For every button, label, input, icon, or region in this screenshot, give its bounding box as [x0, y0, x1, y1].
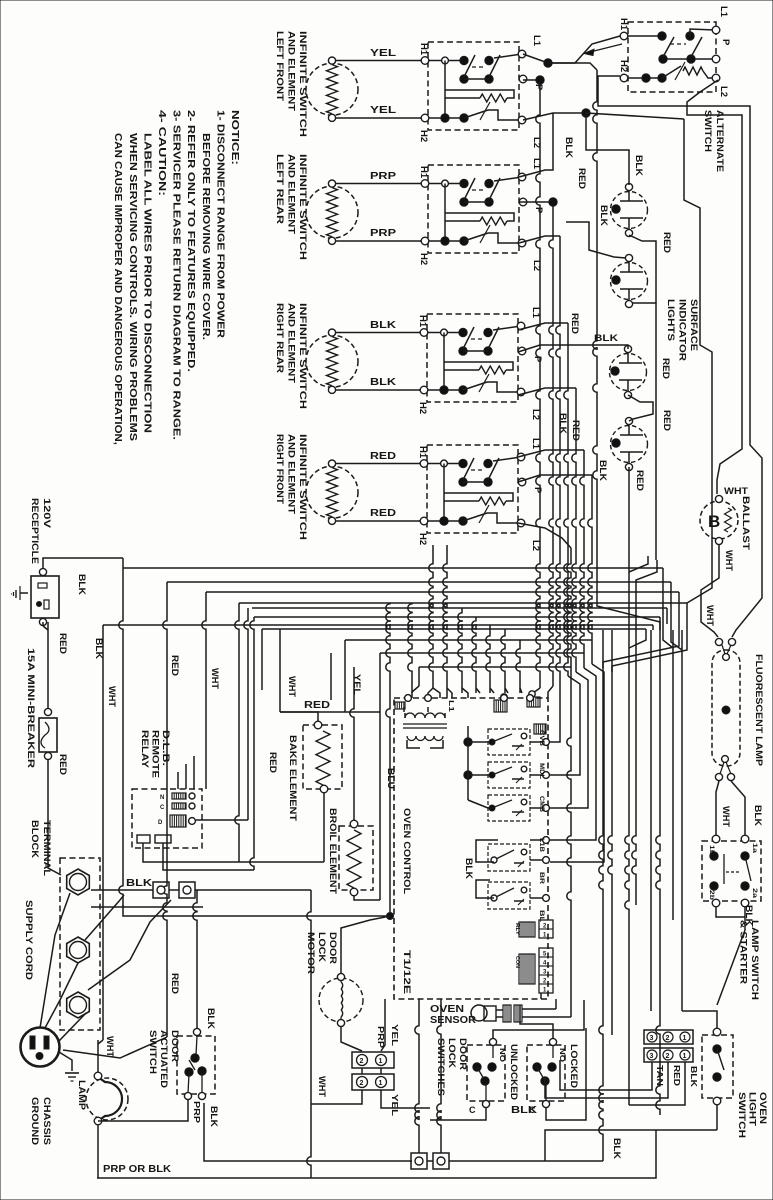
- svg-text:RELAY: RELAY: [139, 730, 150, 769]
- label: SURFACE INDICATOR LIGHTS: [665, 299, 699, 361]
- wire drop x280 WHT: [279, 629, 281, 712]
- door lock switch (unlocked): [467, 1038, 505, 1107]
- fluorescent filament bottom: [715, 756, 734, 781]
- svg-text:RED: RED: [635, 470, 645, 492]
- svg-text:1b: 1b: [708, 845, 714, 855]
- svg-text:WHT: WHT: [107, 686, 117, 708]
- label BLU broil wire: [386, 768, 396, 789]
- label RED left mid: [170, 973, 180, 995]
- wire light2 bottom chain: [655, 303, 657, 560]
- label RED sw3: [570, 313, 580, 335]
- wire broil BLU wire: [379, 712, 381, 900]
- wire right band bends top: [597, 556, 687, 672]
- label WHT ballast bottom: [724, 550, 734, 572]
- label BLK sw4: [598, 460, 608, 482]
- label L1 oven control: [447, 700, 454, 712]
- fluorescent lamp tube: [712, 650, 740, 766]
- wire bus line 1: [123, 567, 663, 569]
- label RED below breaker: [58, 754, 68, 776]
- wire P sw4: [518, 475, 604, 862]
- relay contact CMB: [488, 795, 549, 821]
- label PRP connector: [376, 1026, 386, 1048]
- svg-text:H1: H1: [618, 18, 629, 31]
- wire vertical x352 broil: [350, 667, 354, 822]
- svg-text:OVEN: OVEN: [757, 1092, 768, 1124]
- svg-text:NO: NO: [498, 1048, 505, 1063]
- pin label MDL: [538, 763, 544, 779]
- infinite switch left front: [420, 42, 527, 130]
- label: INFINITE SWITCH AND ELEMENT RIGHT REAR: [274, 303, 308, 409]
- wires strips: [545, 1005, 685, 1105]
- svg-text:DOOR: DOOR: [327, 932, 338, 964]
- wire right vertical x603: [599, 630, 603, 1161]
- wire light4 bottom down: [628, 467, 630, 556]
- svg-text:2: 2: [360, 1058, 364, 1065]
- label BLK lamp starter: [744, 905, 754, 927]
- lamp switch & starter: [702, 835, 761, 907]
- svg-text:RED: RED: [170, 973, 180, 995]
- svg-text:CON: CON: [514, 956, 520, 968]
- receptacle 120V: [12, 568, 60, 625]
- connector strip J2 (2-1): [514, 920, 553, 939]
- wire RED element to H2 (group 4): [336, 508, 420, 521]
- svg-text:AND ELEMENT: AND ELEMENT: [286, 154, 297, 234]
- svg-text:BLK: BLK: [753, 805, 763, 827]
- svg-text:LAMP: LAMP: [76, 1080, 87, 1111]
- wire door sw bottoms: [204, 1103, 412, 1161]
- svg-text:YEL: YEL: [370, 105, 396, 116]
- label RED light2: [661, 358, 671, 380]
- relay contact BR: [488, 844, 549, 871]
- svg-text:L1: L1: [447, 700, 454, 712]
- wire breaker to terminal block: [48, 760, 61, 875]
- svg-text:2a: 2a: [751, 888, 757, 899]
- wire right vertical x660: [656, 630, 660, 1115]
- chassis ground symbol: [59, 1052, 79, 1081]
- svg-text:BLK: BLK: [564, 137, 574, 159]
- label BLK sw1: [564, 137, 574, 159]
- svg-text:LABEL ALL WIRES PRIOR TO DISC: LABEL ALL WIRES PRIOR TO DISCONNECTION: [141, 133, 152, 433]
- svg-text:INDICATOR: INDICATOR: [677, 299, 688, 361]
- label: FLUORESCENT LAMP: [753, 654, 764, 767]
- label: BALLAST: [740, 496, 751, 550]
- svg-text:P: P: [720, 39, 731, 46]
- label: SUPPLY CORD: [23, 900, 34, 980]
- svg-text:WHT: WHT: [724, 550, 734, 572]
- label: BAKE ELEMENT: [287, 735, 298, 821]
- label: 15A MINI-BREAKER: [25, 648, 36, 768]
- svg-text:RED: RED: [672, 1065, 682, 1086]
- infinite switch left rear: [420, 165, 527, 253]
- relay: D.L.B. remote relay: [132, 789, 202, 848]
- wire bus line 2: [167, 581, 671, 583]
- terminal block stud 2: [67, 937, 90, 963]
- svg-text:CMB: CMB: [538, 796, 544, 813]
- wire oven light switch bottom: [716, 1105, 718, 1130]
- svg-text:L1: L1: [531, 35, 542, 47]
- wire drop x254: [250, 617, 254, 870]
- svg-text:MOTOR: MOTOR: [305, 932, 316, 974]
- wire YEL element to H2 (group 1): [336, 105, 421, 118]
- wire L2 sw3: [518, 388, 588, 808]
- junction dots oven control: [464, 726, 488, 808]
- svg-text:LIGHT: LIGHT: [747, 1092, 758, 1126]
- svg-text:H1: H1: [417, 315, 428, 328]
- wire bake bottom: [323, 793, 325, 862]
- wire bus line 3: [206, 591, 679, 593]
- label: DOOR ACTUATED SWITCH: [147, 1030, 180, 1088]
- svg-text:SWITCH: SWITCH: [736, 1092, 747, 1138]
- svg-text:RED: RED: [577, 168, 587, 190]
- infinite switch right front: [419, 445, 526, 533]
- label: LAMP SWITCH & STARTER: [738, 920, 761, 1000]
- svg-text:1: 1: [379, 1058, 383, 1065]
- svg-text:CAN CAUSE IMPROPER AND DANGERO: CAN CAUSE IMPROPER AND DANGEROUS OPERATI…: [112, 133, 123, 445]
- label BLK receptacle: [77, 574, 87, 596]
- svg-text:FLUORESCENT LAMP: FLUORESCENT LAMP: [753, 654, 764, 767]
- fluorescent filament top: [715, 638, 735, 660]
- bottom connector square 1: [411, 1153, 427, 1169]
- label: PRP OR BLK: [103, 1164, 172, 1175]
- label: T1/12E: [401, 950, 412, 994]
- bottom connector square 2: [433, 1153, 449, 1169]
- wire x441 bottom: [437, 999, 441, 1153]
- callout arrow to alternate switch: [584, 44, 622, 56]
- label WHT fluorescent bottom: [721, 806, 731, 828]
- wire drop x262: [261, 629, 263, 690]
- svg-text:WHT: WHT: [105, 1036, 115, 1058]
- wire vertical x505: [501, 629, 505, 693]
- pin labels H1 H2 L1 P L2 (group 2): [418, 158, 544, 271]
- wire feeds into oven control: [433, 688, 522, 698]
- relay contact MDL: [488, 762, 549, 788]
- svg-text:WHT: WHT: [721, 806, 731, 828]
- svg-text:BLK: BLK: [464, 858, 474, 880]
- svg-text:H1: H1: [418, 166, 429, 179]
- label BLK fluorescent bottom: [753, 805, 763, 827]
- svg-text:RIGHT REAR: RIGHT REAR: [274, 303, 285, 373]
- svg-text:BLK: BLK: [209, 1106, 219, 1128]
- svg-text:PRP OR BLK: PRP OR BLK: [103, 1164, 172, 1175]
- wire motor top: [341, 916, 390, 973]
- svg-text:BLK: BLK: [77, 574, 87, 596]
- svg-text:LAMP SWITCH: LAMP SWITCH: [749, 920, 760, 1000]
- wire motor bottom: [341, 1027, 362, 1051]
- element: surface element left rear: [306, 180, 358, 244]
- wire drop x206: [202, 592, 206, 789]
- wire light3 bottom: [628, 395, 653, 421]
- wire YEL element to H1 (group 1): [336, 48, 421, 61]
- svg-text:YEL: YEL: [370, 48, 396, 59]
- svg-text:WHT: WHT: [287, 676, 297, 698]
- label RED sw2 wire: [571, 420, 581, 442]
- wire P sw2 down: [519, 198, 557, 698]
- wire bake top RED: [280, 712, 318, 721]
- svg-text:BLK: BLK: [598, 460, 608, 482]
- label: OVEN LIGHT SWITCH: [736, 1092, 768, 1138]
- wire P sw3 to light3: [518, 345, 628, 352]
- svg-text:PRP: PRP: [370, 171, 396, 182]
- label WHT near motor: [317, 1076, 327, 1098]
- label BLK left bus: [94, 638, 104, 660]
- svg-text:D: D: [158, 820, 163, 826]
- svg-text:INFINITE SWITCH: INFINITE SWITCH: [297, 154, 308, 260]
- label RED strip: [672, 1065, 682, 1086]
- terminal block box: [60, 858, 100, 1030]
- svg-text:NO: NO: [558, 1048, 565, 1063]
- element: surface element left front: [306, 57, 358, 121]
- svg-text:RED: RED: [662, 232, 672, 254]
- label RED bake wire: [304, 700, 330, 711]
- wire BLK to door sw: [193, 890, 197, 1029]
- svg-text:REMOTE: REMOTE: [150, 730, 161, 778]
- label: 120V RECEPTICLE: [29, 498, 52, 564]
- svg-text:MDL: MDL: [538, 763, 544, 779]
- svg-text:RLY: RLY: [514, 923, 520, 935]
- svg-text:RED: RED: [370, 451, 396, 462]
- label PRP below door sw: [192, 1101, 202, 1123]
- svg-text:H2: H2: [417, 533, 428, 545]
- oven light switch: [702, 1028, 733, 1105]
- wire vertical x490: [486, 625, 490, 693]
- label: INFINITE SWITCH AND ELEMENT LEFT REAR: [274, 154, 308, 260]
- svg-text:3: 3: [650, 1035, 654, 1042]
- svg-text:2: 2: [360, 1080, 364, 1087]
- svg-text:P: P: [533, 207, 544, 214]
- svg-text:D.L.B.: D.L.B.: [160, 730, 171, 766]
- svg-text:H2: H2: [418, 253, 429, 265]
- svg-text:BLOCK: BLOCK: [29, 820, 40, 858]
- wire PRP element to H2 (group 2): [336, 228, 421, 241]
- label: INFINITE SWITCH AND ELEMENT LEFT FRONT: [274, 31, 308, 137]
- wire P sw1 down: [533, 80, 540, 698]
- connector pair A (2 1): [352, 1052, 394, 1068]
- svg-text:1: 1: [379, 1080, 383, 1087]
- wire bus line 11: [419, 666, 571, 668]
- wire right vertical x629: [625, 556, 629, 1105]
- connector square 2: [179, 882, 195, 898]
- svg-text:15A MINI-BREAKER: 15A MINI-BREAKER: [25, 648, 36, 768]
- label RED sw1: [577, 168, 587, 190]
- svg-text:H1: H1: [418, 43, 429, 56]
- svg-text:H2: H2: [618, 60, 629, 72]
- svg-text:BLK: BLK: [94, 638, 104, 660]
- svg-text:OVEN CONTROL: OVEN CONTROL: [401, 808, 412, 894]
- wires fluorescent bottom: [716, 781, 745, 835]
- door actuated switch: [177, 1028, 215, 1099]
- label WHT lamp wire: [105, 1036, 115, 1058]
- label: DOOR LOCK MOTOR: [305, 932, 338, 974]
- indicator light 3 (surface): [610, 345, 647, 398]
- bottom second wire: [427, 1130, 717, 1161]
- label: ALTERNATE SWITCH: [702, 110, 725, 172]
- wire bake RED feed: [280, 711, 380, 713]
- svg-text:BLK: BLK: [511, 1105, 538, 1116]
- pin labels 1b 1a 2b 2a: [708, 843, 757, 900]
- wire lamp starter bottoms: [716, 907, 745, 1005]
- svg-text:2: 2: [666, 1053, 670, 1060]
- svg-text:H2: H2: [417, 402, 428, 414]
- bottom bus wire: [97, 1130, 656, 1178]
- transformer (oven control): [395, 695, 447, 748]
- svg-text:1: 1: [683, 1053, 687, 1060]
- svg-text:WHT: WHT: [317, 1076, 327, 1098]
- svg-text:BROIL ELEMENT: BROIL ELEMENT: [327, 808, 338, 894]
- wire BLK element to H2 (group 3): [336, 377, 420, 390]
- svg-text:ALTERNATE: ALTERNATE: [714, 110, 725, 172]
- svg-text:CHASSIS: CHASSIS: [41, 1097, 52, 1145]
- relay contact CVB: [488, 729, 549, 755]
- svg-text:LOCK: LOCK: [446, 1038, 457, 1068]
- label BLK sw2 wire: [558, 413, 568, 435]
- label YEL lower: [390, 1094, 400, 1116]
- label WHT fluorescent top: [705, 605, 715, 627]
- wire bus line 9: [345, 639, 592, 641]
- label BLK light1 wire: [634, 155, 644, 177]
- svg-text:PRP: PRP: [370, 228, 396, 239]
- label RED above breaker: [58, 633, 68, 655]
- svg-text:SENSOR: SENSOR: [430, 1015, 477, 1026]
- wire staircase from alt switch L2: [687, 80, 742, 494]
- label BLK between door locks: [511, 1105, 538, 1116]
- svg-text:INFINITE SWITCH: INFINITE SWITCH: [297, 434, 308, 540]
- svg-text:2- REFER ONLY TO FEATURES EQUI: 2- REFER ONLY TO FEATURES EQUIPPED.: [185, 110, 196, 372]
- relay contact BL: [488, 882, 549, 909]
- pin label CMB: [538, 796, 544, 813]
- label WHT mid bus: [210, 668, 220, 690]
- infinite switch right rear: [419, 314, 526, 402]
- wire right vertical x651: [650, 630, 652, 1011]
- svg-text:LEFT FRONT: LEFT FRONT: [274, 31, 285, 101]
- wire broil bottom: [354, 896, 380, 900]
- terminal block stud 1: [67, 869, 90, 895]
- svg-text:BR: BR: [538, 872, 544, 885]
- svg-text:N: N: [160, 795, 164, 801]
- svg-text:WHT: WHT: [210, 668, 220, 690]
- wire L2 sw4: [518, 523, 571, 1017]
- wire drop x239: [235, 603, 239, 862]
- svg-text:WHEN SERVICING CONTROLS. WIRIN: WHEN SERVICING CONTROLS. WIRING PROBLEMS: [127, 133, 138, 441]
- svg-text:3: 3: [650, 1053, 654, 1060]
- element: surface element right front: [306, 460, 358, 524]
- svg-text:2: 2: [666, 1035, 670, 1042]
- svg-text:YEL: YEL: [390, 1094, 400, 1116]
- broil element: [339, 820, 373, 896]
- label: TERMINAL BLOCK: [29, 820, 52, 876]
- svg-text:NOTICE:: NOTICE:: [229, 110, 240, 165]
- label RED mid 3: [268, 752, 278, 774]
- label NO locked: [558, 1048, 565, 1063]
- indicator light 1 (surface): [611, 183, 648, 236]
- svg-text:L1B: L1B: [538, 838, 544, 853]
- svg-text:& STARTER: & STARTER: [738, 920, 749, 984]
- svg-text:PRP: PRP: [192, 1101, 202, 1123]
- label BLK strip: [689, 1066, 699, 1088]
- wire vertical x331 bake: [330, 653, 332, 700]
- label YEL mid bus: [352, 674, 362, 696]
- svg-text:RECEPTICLE: RECEPTICLE: [29, 498, 40, 564]
- svg-text:YEL: YEL: [390, 1024, 400, 1046]
- wire drop x380 BLU: [379, 653, 381, 712]
- oven control top terminals: [501, 695, 534, 702]
- wire RED into plug: [63, 1037, 167, 1058]
- svg-text:BLK: BLK: [126, 878, 153, 889]
- svg-text:H2: H2: [418, 130, 429, 142]
- wires door lock switches: [430, 1000, 586, 1120]
- label: LOCKED: [568, 1044, 579, 1088]
- svg-text:2b: 2b: [708, 890, 714, 900]
- svg-text:LOCKED: LOCKED: [568, 1044, 579, 1088]
- wire bus line 8: [262, 628, 646, 630]
- label BLK on x597: [599, 205, 609, 227]
- wire relay top feeds: [178, 756, 248, 820]
- label WHT left bus: [107, 686, 117, 708]
- pin labels H1 H2 L1 P L2 (group 4): [417, 438, 543, 551]
- svg-text:BLK: BLK: [594, 333, 619, 343]
- label WHT ballast top: [724, 486, 749, 496]
- wire squares right: [169, 890, 311, 1178]
- svg-text:ACTUATED: ACTUATED: [158, 1030, 169, 1088]
- pin labels H1 H2 L1 P L2 (group 1): [418, 35, 544, 148]
- wire drop x248: [244, 608, 248, 820]
- svg-text:C: C: [160, 805, 165, 811]
- svg-text:RED: RED: [570, 313, 580, 335]
- svg-text:RIGHT FRONT: RIGHT FRONT: [274, 434, 285, 504]
- svg-text:1: 1: [683, 1035, 687, 1042]
- ballast B: [700, 495, 738, 544]
- terminal block stud 3: [67, 992, 90, 1018]
- svg-text:L1: L1: [718, 6, 729, 18]
- label BLK light3 wire: [594, 333, 619, 343]
- svg-text:DOOR: DOOR: [457, 1038, 468, 1070]
- wire bus line 10: [380, 652, 584, 654]
- svg-text:L2: L2: [718, 86, 729, 97]
- wires lower contacts: [464, 837, 549, 898]
- svg-text:RED: RED: [370, 508, 396, 519]
- wire right vertical x612: [608, 630, 612, 1035]
- indicator light 4 (surface): [611, 417, 648, 470]
- svg-text:SWITCH: SWITCH: [147, 1030, 158, 1074]
- svg-text:BLK: BLK: [612, 1138, 622, 1160]
- wire L1 sw2 up: [519, 113, 553, 177]
- svg-text:BLK: BLK: [599, 205, 609, 227]
- svg-text:BAKE ELEMENT: BAKE ELEMENT: [287, 735, 298, 821]
- note: NOTICE service text block: [112, 110, 240, 445]
- svg-text:WHT: WHT: [705, 605, 715, 627]
- svg-text:1a: 1a: [751, 843, 757, 854]
- svg-text:SUPPLY CORD: SUPPLY CORD: [23, 900, 34, 980]
- svg-text:SWITCH: SWITCH: [702, 110, 713, 152]
- wire L2 sw1 right-down: [523, 109, 712, 603]
- wire BLK to light2 top: [566, 222, 626, 258]
- wire L1 sw1 down BLK: [548, 63, 597, 560]
- svg-text:H1: H1: [417, 446, 428, 459]
- svg-text:RED: RED: [268, 752, 278, 774]
- wire ballast bottom to fluorescent: [701, 545, 719, 637]
- relay coil MB: [534, 724, 546, 734]
- svg-text:LEFT REAR: LEFT REAR: [274, 154, 285, 224]
- relay coil L1D b: [527, 691, 540, 707]
- pin labels H1 H2 L1 P L2 (group 3): [417, 307, 543, 420]
- indicator light 2 (surface): [611, 254, 648, 307]
- label: UNLOCKED: [508, 1044, 519, 1100]
- wire vertical x390: [386, 603, 390, 916]
- wire lamp to bottom bus: [98, 1100, 188, 1178]
- wire oven light switch top: [682, 1011, 717, 1028]
- label C locked: [529, 1105, 536, 1115]
- wire connector pairs: [311, 999, 430, 1108]
- wire drop x167: [163, 582, 167, 1037]
